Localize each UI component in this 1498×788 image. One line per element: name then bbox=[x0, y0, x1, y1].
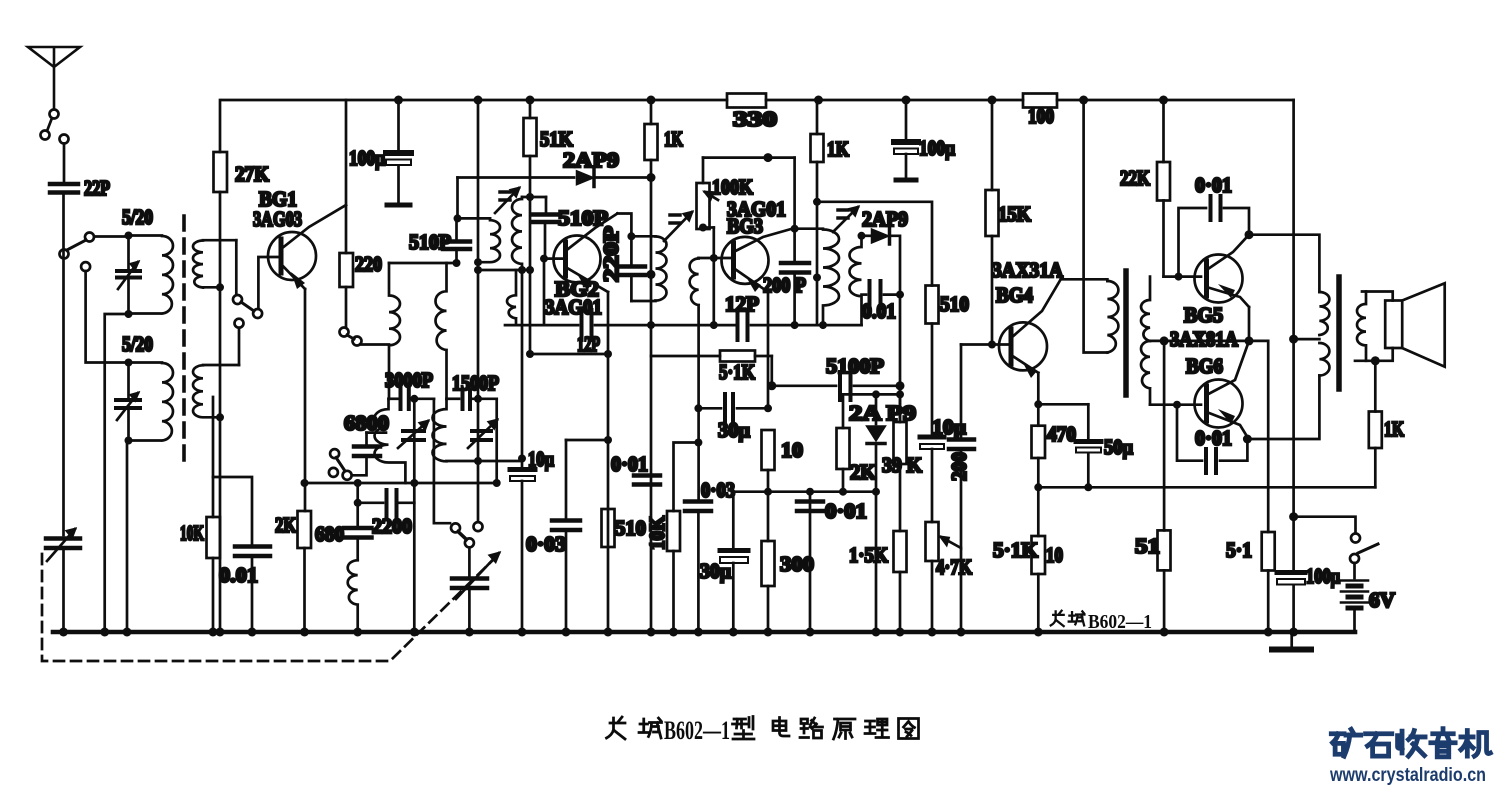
transistor BG5 3AX81A bbox=[1184, 235, 1249, 327]
resistor 2K (BG1 emitter) bbox=[275, 511, 311, 632]
resistor 100 (supply) bbox=[1023, 94, 1057, 129]
wire BG3 top bias bbox=[703, 156, 795, 159]
svg-text:BG5: BG5 bbox=[1184, 303, 1223, 327]
capacitor 100u (supply bypass) bbox=[349, 100, 411, 205]
caption title bbox=[607, 717, 919, 740]
wire emitter line to ground bbox=[607, 354, 610, 632]
node diode junction bbox=[647, 173, 656, 182]
wire osc switch feed corner bbox=[434, 399, 450, 523]
svg-text:1·5K: 1·5K bbox=[849, 543, 889, 567]
resistor 300 bbox=[762, 492, 815, 632]
core T6 bbox=[1336, 277, 1342, 389]
coil T1b secondary band2 bbox=[193, 365, 239, 417]
capacitor 0.01 (BG5 feedback) bbox=[1179, 173, 1250, 277]
wire BG4 collector to T5 bbox=[1061, 279, 1108, 281]
wire to 510 decoupling bbox=[817, 202, 932, 286]
svg-text:10: 10 bbox=[781, 438, 803, 462]
coil T2 secondary bbox=[512, 197, 522, 270]
node A1 bbox=[125, 232, 133, 240]
svg-text:5/20: 5/20 bbox=[122, 205, 153, 229]
diode 2AP9 (AGC) bbox=[458, 148, 652, 187]
resistor 1K (BG3 collector) bbox=[811, 100, 850, 325]
svg-text:200: 200 bbox=[947, 452, 971, 481]
capacitor 0.03 bbox=[526, 440, 580, 632]
logo crystalradio bbox=[1331, 729, 1490, 757]
svg-text:BG3: BG3 bbox=[727, 214, 763, 238]
wire BG5 collector to T6 top bbox=[1249, 235, 1319, 292]
wire bbox=[62, 195, 65, 535]
wire BG1 base bbox=[258, 257, 278, 309]
trimmer T4 bbox=[833, 207, 858, 232]
svg-text:1500P: 1500P bbox=[452, 371, 499, 395]
battery 6V bbox=[1341, 563, 1395, 632]
capacitor 12P (BG3) bbox=[725, 292, 862, 340]
node 1500P bbox=[474, 395, 482, 403]
coil T5 secondary bbox=[1141, 277, 1150, 405]
coil Losc A2 bbox=[435, 263, 446, 399]
svg-text:0·01: 0·01 bbox=[611, 452, 648, 476]
wire vertical 3000P node down bbox=[413, 399, 416, 632]
node emitter junction bbox=[1245, 336, 1254, 345]
gang dashed line bbox=[182, 216, 186, 460]
resistor 10 (BG3) bbox=[762, 430, 804, 470]
svg-text:50μ: 50μ bbox=[1104, 435, 1133, 459]
band switch S1a second contact bbox=[81, 262, 128, 362]
wire 0.03 top bbox=[566, 439, 608, 442]
trimmer T2 bbox=[495, 188, 519, 213]
svg-text:1K: 1K bbox=[827, 137, 850, 161]
band switch S1a contacts bbox=[60, 233, 129, 259]
capacitor 0.03 (BG3) bbox=[685, 478, 735, 632]
diode 2AP9 (detector) bbox=[862, 207, 909, 293]
svg-text:www.crystalradio.cn: www.crystalradio.cn bbox=[1329, 765, 1486, 786]
top supply bus bbox=[222, 99, 1294, 102]
wire detector chain vertical bbox=[899, 295, 902, 422]
svg-text:3AX81A: 3AX81A bbox=[1170, 327, 1239, 351]
capacitor 10u (AGC line) bbox=[510, 270, 554, 632]
node B2 / wire to ground bbox=[125, 437, 133, 445]
wire 5100P left vertical bbox=[770, 356, 773, 386]
svg-text:100: 100 bbox=[1028, 104, 1054, 128]
resistor 15K bbox=[986, 100, 1032, 345]
capacitor 12P (BG2) bbox=[505, 310, 736, 356]
wire base feed vertical bbox=[712, 228, 715, 326]
node B1 bbox=[125, 359, 133, 367]
transistor BG4 3AX31A bbox=[992, 258, 1064, 378]
svg-text:27K: 27K bbox=[235, 162, 270, 186]
svg-text:510: 510 bbox=[940, 292, 969, 316]
node 12P junction bbox=[647, 321, 655, 329]
trimmer 3000P arrow bbox=[398, 421, 428, 448]
svg-text:2AP9: 2AP9 bbox=[563, 148, 619, 172]
node BG5 collector bbox=[1245, 230, 1254, 239]
coil T5 primary bbox=[1107, 281, 1118, 353]
node BG2 base bbox=[540, 255, 548, 263]
svg-text:12P: 12P bbox=[725, 292, 759, 316]
wire BG4 emitter bbox=[1037, 373, 1040, 405]
svg-text:5·1K: 5·1K bbox=[719, 360, 756, 384]
resistor 10K (AGC) bbox=[180, 397, 220, 632]
coil T6 primary bbox=[1319, 292, 1329, 376]
svg-text:100μ: 100μ bbox=[919, 136, 955, 160]
node T3 center tap bbox=[647, 270, 656, 279]
coil T4 primary bbox=[795, 229, 839, 325]
wire T3 sec top to BG3 base bbox=[699, 257, 714, 260]
resistor 2K (AGC) bbox=[837, 394, 877, 491]
wire BG6 base bbox=[1150, 403, 1201, 406]
wire T2 sec top bbox=[522, 196, 546, 199]
svg-text:B602—1: B602—1 bbox=[664, 716, 730, 745]
core T5 bbox=[1123, 271, 1129, 395]
node speaker bottom bbox=[1371, 356, 1380, 365]
wire BG5 emitter bbox=[1248, 307, 1251, 341]
resistor 27K bbox=[214, 100, 270, 632]
node 3000P bbox=[410, 395, 418, 403]
capacitor 0.01 (volume) bbox=[797, 492, 867, 632]
diode 2AP9 (AGC clamp) bbox=[849, 394, 916, 632]
wire junction to 5.1 resistor bbox=[1249, 341, 1268, 532]
coil T3 primary bbox=[631, 236, 666, 301]
capacitor 100u (power filter) bbox=[1277, 517, 1340, 632]
svg-text:680: 680 bbox=[315, 522, 344, 546]
svg-text:510P: 510P bbox=[409, 230, 451, 254]
svg-text:BG6: BG6 bbox=[1186, 354, 1223, 378]
capacitor 5100P bbox=[772, 354, 900, 400]
coil T2 primary bbox=[478, 218, 500, 262]
svg-text:10K: 10K bbox=[645, 515, 669, 550]
wire BG2 emitter down bbox=[607, 292, 610, 354]
wire bias horizontal y483 bbox=[305, 482, 497, 485]
node 510P bottom bbox=[453, 259, 461, 267]
power switch bbox=[1350, 534, 1378, 564]
resistor 1K (osc feedback) bbox=[645, 100, 684, 632]
wire supply to T5 primary bottom bbox=[1084, 100, 1108, 353]
resistor 1.5K bbox=[849, 531, 907, 632]
node 1K line bbox=[813, 198, 821, 206]
coil T4 secondary bbox=[850, 236, 862, 325]
wire 51K node down bbox=[529, 197, 532, 354]
wire BG4 base bbox=[961, 343, 1008, 346]
svg-text:2200: 2200 bbox=[372, 514, 412, 538]
transistor BG1 3AG03 bbox=[253, 187, 346, 289]
node 100K bottom bbox=[699, 224, 707, 232]
svg-text:4·7K: 4·7K bbox=[936, 555, 973, 579]
coil T3 secondary bbox=[690, 258, 699, 499]
resistor 51K bbox=[524, 100, 574, 197]
coil osc B2 bbox=[433, 399, 478, 462]
svg-text:10: 10 bbox=[1046, 543, 1063, 567]
node BG3 collector corner bbox=[791, 225, 799, 233]
svg-text:100K: 100K bbox=[712, 175, 754, 199]
node 680 top bbox=[354, 499, 362, 507]
resistor 5.1K (BG4 bias) bbox=[993, 487, 1063, 632]
variable capacitor 5/20 band1 bbox=[117, 236, 140, 314]
capacitor 2200 bbox=[358, 490, 415, 538]
capacitor 0.01 (BG6 feedback) bbox=[1177, 405, 1247, 473]
coil L1 band2 bbox=[129, 363, 174, 441]
svg-text:0·03: 0·03 bbox=[701, 478, 735, 502]
band switch S1d bbox=[329, 449, 352, 480]
svg-text:100μ: 100μ bbox=[349, 146, 385, 170]
node A2 bbox=[125, 310, 133, 318]
svg-text:30μ: 30μ bbox=[718, 418, 750, 442]
svg-text:100μ: 100μ bbox=[1306, 564, 1340, 588]
wire antenna down bbox=[63, 144, 66, 183]
resistor 5.1 bbox=[1226, 532, 1275, 632]
svg-text:10μ: 10μ bbox=[528, 447, 554, 471]
transistor BG6 3AX81A bbox=[1186, 341, 1249, 437]
capacitor 1500P bbox=[447, 390, 497, 409]
antenna bbox=[28, 47, 80, 109]
svg-text:3AX31A: 3AX31A bbox=[992, 258, 1064, 282]
svg-text:220: 220 bbox=[355, 252, 382, 276]
capacitor 6800 bbox=[352, 433, 386, 476]
svg-text:0·01: 0·01 bbox=[825, 499, 867, 523]
node BG6 emitter bbox=[1243, 435, 1252, 444]
wire BG6 emitter to T6 bottom bbox=[1247, 376, 1319, 440]
switch S1c under 220 bbox=[340, 287, 390, 346]
trimmer 1500P arrow bbox=[468, 420, 497, 448]
wire supply to center tap bbox=[1292, 100, 1295, 517]
capacitor 0.01 (AF) bbox=[611, 452, 660, 485]
capacitor 0.01 (AGC) bbox=[213, 477, 270, 632]
svg-text:0.01: 0.01 bbox=[219, 563, 258, 587]
coil T6 secondary (speaker) bbox=[1357, 292, 1366, 361]
resistor 470 bbox=[1032, 404, 1077, 487]
svg-text:10K: 10K bbox=[180, 521, 204, 545]
svg-text:200 P: 200 P bbox=[763, 273, 806, 297]
wire BG1 emitter down bbox=[304, 289, 307, 511]
wire bbox=[62, 550, 65, 632]
capacitor 0.01 (detector filter) bbox=[862, 281, 901, 323]
svg-text:0.01: 0.01 bbox=[862, 299, 896, 323]
svg-text:0·01: 0·01 bbox=[1195, 426, 1232, 450]
coil Losc A1 bbox=[389, 263, 400, 399]
capacitor 680 bbox=[315, 483, 372, 560]
resistor 220 (BG1 collector) bbox=[340, 100, 383, 287]
wire emitter bias y354 bbox=[530, 353, 608, 356]
wire T2 secondary bottom bbox=[478, 269, 530, 272]
ground symbol bbox=[1272, 632, 1311, 650]
capacitor 100u (supply filter 2) bbox=[894, 100, 955, 180]
resistor 100K bbox=[697, 158, 754, 229]
node 51K bottom bbox=[526, 193, 534, 201]
resistor 39K bbox=[882, 386, 923, 531]
label 长城B602-1 (model) bbox=[1051, 611, 1085, 626]
svg-text:1K: 1K bbox=[664, 127, 683, 151]
svg-text:330: 330 bbox=[733, 107, 777, 131]
wire feedback y487 bbox=[1038, 486, 1375, 489]
potentiometer 4.7K bbox=[926, 522, 973, 632]
svg-text:15K: 15K bbox=[998, 202, 1032, 226]
wire center tap T5 bbox=[1150, 340, 1249, 343]
svg-text:5·1K: 5·1K bbox=[993, 538, 1039, 562]
band switch S1b contact 2 bbox=[235, 319, 244, 365]
capacitor 10u (coupling) bbox=[920, 324, 966, 522]
variable capacitor C1a (main tuning) bbox=[46, 529, 80, 561]
svg-text:30μ: 30μ bbox=[700, 559, 731, 583]
coil 680 bottom bbox=[348, 560, 358, 632]
svg-text:2K: 2K bbox=[850, 460, 877, 484]
ground bus nodes bbox=[59, 628, 1298, 637]
wire coil B2 bottom to 10u line bbox=[478, 460, 522, 463]
node T6 center tap bbox=[1289, 335, 1298, 344]
svg-text:470: 470 bbox=[1047, 422, 1076, 446]
resistor 51 bbox=[1135, 341, 1171, 632]
capacitor 22P bbox=[50, 176, 110, 200]
capacitor 30u (emitter bypass) bbox=[698, 394, 768, 442]
svg-text:51: 51 bbox=[1135, 534, 1160, 558]
resistor 510 (decoupling) bbox=[926, 286, 970, 324]
coil T2 secondary lower section bbox=[507, 270, 516, 325]
capacitor 220P bbox=[617, 236, 645, 301]
wire BG2 collector corner bbox=[617, 214, 631, 237]
svg-text:2AP9: 2AP9 bbox=[862, 207, 908, 231]
svg-text:1K: 1K bbox=[1384, 417, 1404, 441]
svg-text:510: 510 bbox=[615, 516, 646, 540]
svg-text:39 K: 39 K bbox=[882, 453, 923, 477]
antenna switch bbox=[41, 110, 69, 144]
resistor 5.1K (BG3 emitter) bbox=[651, 351, 772, 385]
band switch S1e (osc) bbox=[451, 522, 483, 547]
capacitor 510P (BG2 base) bbox=[533, 197, 608, 259]
svg-text:0·01: 0·01 bbox=[1195, 173, 1232, 197]
coil L1 band1 bbox=[129, 236, 174, 314]
svg-text:5·1: 5·1 bbox=[1226, 538, 1252, 562]
capacitor 3000P bbox=[389, 388, 435, 409]
wire 1500P right corner down bbox=[495, 399, 498, 483]
resistor 10K rotated label bbox=[645, 443, 697, 633]
transistor BG3 3AG01 bbox=[714, 197, 795, 292]
node T1b bottom bbox=[216, 413, 224, 421]
wire y491 bbox=[767, 470, 770, 492]
coil T1a secondary band1 bbox=[193, 240, 236, 287]
node T1a bottom bbox=[216, 283, 224, 291]
resistor 22K bbox=[1120, 100, 1170, 277]
svg-text:0·03: 0·03 bbox=[526, 532, 566, 556]
wire 510P chain top bbox=[389, 262, 457, 265]
variable capacitor C1b (osc tuning) bbox=[452, 548, 499, 633]
resistor 510 (AGC) bbox=[602, 509, 647, 547]
capacitor 200P bbox=[763, 263, 809, 325]
wire corner to T2 bbox=[456, 178, 459, 219]
coil 6800 (osc B1) bbox=[375, 399, 406, 483]
resistor 1K (feedback) bbox=[1369, 361, 1405, 488]
resistor 330 (supply) bbox=[727, 94, 777, 132]
svg-text:5/20: 5/20 bbox=[122, 332, 153, 356]
capacitor 200 bbox=[941, 345, 974, 633]
ground bus bbox=[53, 630, 1355, 635]
capacitor 50u bbox=[1076, 404, 1133, 487]
wire node A2 to ground bbox=[105, 314, 129, 632]
transistor BG2 3AG01 bbox=[544, 214, 617, 320]
svg-text:B602—1: B602—1 bbox=[1088, 611, 1152, 633]
wire BG5 base bbox=[1164, 275, 1202, 278]
wire y394 bbox=[843, 393, 900, 396]
node 30u junction bbox=[694, 404, 702, 412]
svg-text:22K: 22K bbox=[1120, 166, 1151, 190]
wire BG3 emitter down bbox=[767, 292, 770, 408]
capacitor 510P (osc) bbox=[409, 218, 470, 263]
svg-text:2K: 2K bbox=[275, 513, 297, 537]
wire switch feed bbox=[1294, 517, 1356, 533]
svg-text:3AG03: 3AG03 bbox=[253, 207, 302, 231]
capacitor 30u (electrolytic) bbox=[700, 492, 768, 632]
speaker bbox=[1355, 283, 1445, 367]
node T2 primary bottom bbox=[474, 258, 482, 266]
svg-text:BG4: BG4 bbox=[996, 283, 1033, 307]
svg-text:6V: 6V bbox=[1369, 588, 1395, 612]
wire T1a top to switch bbox=[235, 240, 238, 293]
svg-text:5100P: 5100P bbox=[826, 354, 884, 378]
svg-text:12P: 12P bbox=[577, 332, 600, 356]
dashed tuning linkage bbox=[42, 554, 497, 661]
wire BG3 collector vertical bbox=[793, 158, 796, 261]
wire base node down to 12P bbox=[543, 259, 546, 326]
wire osc feed from bus bbox=[477, 100, 480, 521]
band switch S1b bbox=[233, 295, 262, 318]
variable capacitor 5/20 band2 bbox=[116, 363, 140, 440]
svg-text:22P: 22P bbox=[84, 176, 110, 200]
top bus nodes bbox=[394, 96, 1168, 105]
trimmer T3 bbox=[664, 212, 692, 241]
